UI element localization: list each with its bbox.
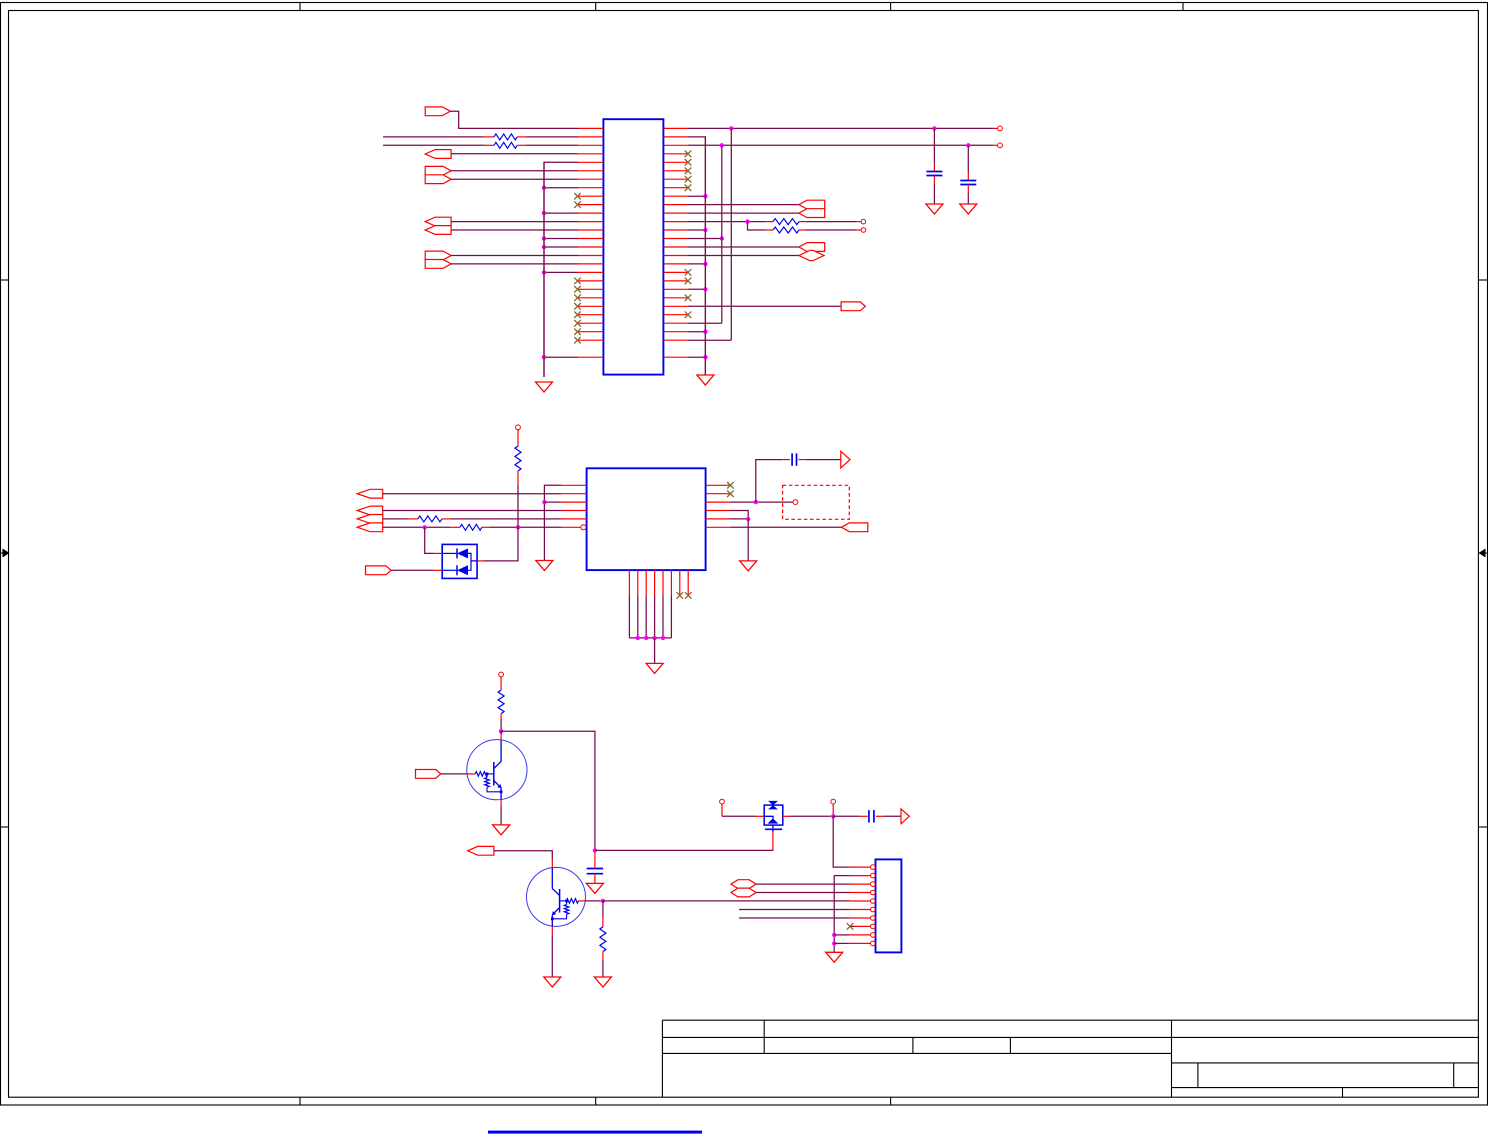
dashed option box xyxy=(783,485,850,519)
wire J1 pin9 xyxy=(834,934,850,936)
resistor R7 (pull-up) xyxy=(517,430,519,446)
off-page circle pull-up xyxy=(516,425,521,430)
resistor R1 xyxy=(484,136,494,138)
connector P4a xyxy=(425,217,451,226)
off-page circle R4 xyxy=(861,228,866,233)
diode pack D1 xyxy=(442,544,477,578)
wire U1 pin17 to gnd trunk xyxy=(688,263,705,265)
capacitor C3 xyxy=(782,459,790,461)
junction pin3/C2 xyxy=(966,143,970,147)
wire R5 to U2 pin5 xyxy=(450,518,561,520)
wire junction row to D2 xyxy=(595,849,774,851)
connector P10b xyxy=(357,515,383,524)
wire Q1 emitter to gnd xyxy=(500,807,502,825)
wire P5a to U1 pin16 xyxy=(451,255,578,257)
wire bus to ground xyxy=(654,638,656,664)
wire P9 to U2 pin2 xyxy=(383,493,561,495)
junction trunkC pin14 xyxy=(720,236,724,240)
wire U1 pin25 to gnd trunk xyxy=(688,331,705,333)
junction gnd trunk pin25 xyxy=(703,330,707,334)
title block xyxy=(662,1019,1478,1021)
wire P11 to D1 in2 xyxy=(391,569,434,571)
wire D2 out down to J1 xyxy=(833,816,850,867)
wire branch down xyxy=(748,222,766,230)
wire C3 to arrow xyxy=(806,459,840,461)
wire U2 pin1 to gnd trunk xyxy=(544,485,561,560)
connector P5b xyxy=(425,260,451,269)
wire stub J1 pin7 xyxy=(739,917,850,919)
resistor R8 (Q1 pull-up) xyxy=(500,677,502,690)
wire P15a to J1 pin3 xyxy=(756,883,850,885)
capacitor C2 xyxy=(967,145,969,172)
wire P2 to U1 pin4 xyxy=(451,153,578,155)
connector P12 xyxy=(841,523,867,532)
junction U2 pin3 gnd xyxy=(542,500,546,504)
off-page circle in dashed box xyxy=(793,500,798,505)
connector P5a xyxy=(425,251,451,260)
ground U2 bottom xyxy=(646,663,663,673)
off-page circle top rail 1 xyxy=(998,126,1003,131)
U2 left pin6 (inverted) xyxy=(561,526,581,528)
frame right zone ticks xyxy=(1478,279,1487,281)
wire U1 pin1 top rail xyxy=(688,127,994,129)
junction left trunk pin27 xyxy=(542,355,546,359)
wire U1 pin13 to gnd trunk xyxy=(688,229,705,231)
wire U1 pin11 to P6b xyxy=(688,212,800,214)
wire P4b to U1 pin13 xyxy=(451,229,578,231)
wire trunkB xyxy=(730,128,732,340)
junction pin1/C1 xyxy=(932,126,936,130)
wire U1 pin16 to P7b xyxy=(688,255,800,257)
ground C1 xyxy=(926,204,943,214)
wire U1 pin15 to P7a xyxy=(688,246,800,248)
no-connect X J1 pin8 xyxy=(850,925,854,927)
connector P7b xyxy=(799,250,824,260)
ground U1 left xyxy=(536,382,553,392)
wire net row2 to resistor xyxy=(383,136,484,138)
wire Q2 emitter to gnd xyxy=(551,934,553,977)
wire P14 to Q2 xyxy=(494,851,552,859)
wire trunk to U1 pin18 xyxy=(544,271,578,273)
junction pullup xyxy=(516,525,520,529)
wire P1 to U1 pin1 xyxy=(450,111,578,128)
footer blue underline xyxy=(488,1131,702,1134)
junctions bottom bus xyxy=(636,636,640,640)
wire to gnd U2 right xyxy=(747,519,749,561)
ground Q1 xyxy=(493,825,510,835)
wire P10a to U2 pin4 xyxy=(383,510,561,512)
no-connect X U2 right 1-2 xyxy=(727,482,734,489)
U2 left pins xyxy=(561,484,587,486)
wire U1 pin9 to gnd trunk xyxy=(688,195,705,197)
wire P3a to U1 pin6 xyxy=(451,170,578,172)
wire J1 pin10 xyxy=(834,942,850,944)
wire U1 pin27 to gnd trunk xyxy=(688,356,705,358)
off-page circle R3 xyxy=(861,219,866,224)
connector P15b xyxy=(731,888,756,897)
wire P5b to U1 pin17 xyxy=(451,263,578,265)
wire R4 to circle xyxy=(806,229,856,231)
transistor Q2 xyxy=(527,867,586,926)
IC U2 xyxy=(587,468,706,570)
U2 right pins xyxy=(706,484,731,486)
junction gnd trunk pin17 xyxy=(703,262,707,266)
wire U2 bottom bus xyxy=(629,637,671,639)
wire U2 pin6r to P12 xyxy=(730,526,841,528)
connector P3b xyxy=(425,175,451,184)
junction Q1 collector xyxy=(499,729,503,733)
junction diode branch xyxy=(423,525,427,529)
connector P10c xyxy=(357,523,383,532)
wire U1 pin12 to R3 xyxy=(688,221,766,223)
no-connect X U2 bottom 7-8 xyxy=(677,592,684,599)
resistor R4 xyxy=(766,229,773,231)
connector P9 xyxy=(357,489,383,498)
wire U1 pin14 to trunkC xyxy=(688,238,722,240)
ground U2 right xyxy=(740,561,757,571)
ground R9 xyxy=(594,977,611,987)
connector P4b xyxy=(425,226,451,235)
wire J1 pin2 to gnd trunk xyxy=(834,876,850,953)
wire trunkC xyxy=(721,145,723,323)
junction J1 pin9 xyxy=(832,933,836,937)
junction AC branch xyxy=(754,500,758,504)
open arrow out1 xyxy=(841,451,850,468)
resistor R6 xyxy=(450,526,460,528)
connector P14 xyxy=(468,846,494,855)
junction J1 pin10 xyxy=(832,941,836,945)
wire U2 pin3 stub xyxy=(544,501,561,503)
connector P15a xyxy=(731,880,756,889)
wire trunk to U1 pin11 xyxy=(544,212,578,214)
wire R2 to U1 pin3 xyxy=(526,144,578,146)
wire D2 in xyxy=(721,804,723,816)
ground U1 right xyxy=(697,375,714,385)
capacitor C1 xyxy=(933,128,935,163)
wire C5 to arrow xyxy=(884,815,901,817)
junction pin5r xyxy=(746,517,750,521)
ground Q2 xyxy=(544,977,561,987)
wire P4a to U1 pin12 xyxy=(451,221,578,223)
ground U2 left xyxy=(536,561,553,571)
wire P10c to R6 xyxy=(383,526,451,528)
frame right centre arrow xyxy=(1480,550,1488,557)
connector P1 (top input) xyxy=(425,107,450,116)
junction C4 top xyxy=(593,848,597,852)
wire R3 to circle xyxy=(806,221,856,223)
wire trunk to U1 pin14 xyxy=(544,238,578,240)
connector P10a xyxy=(357,506,383,515)
no-connect X U1 left pins 9-10 xyxy=(574,193,581,200)
wire U1 pin24 to trunkC end xyxy=(688,322,722,324)
connector P13 (Q1 base) xyxy=(416,770,441,779)
wire D2 out xyxy=(782,815,790,817)
off-page circle top rail 2 xyxy=(998,143,1003,148)
wire P3b to U1 pin7 xyxy=(451,178,578,180)
wire net row3 to resistor xyxy=(383,144,484,146)
resistor R3 xyxy=(766,221,773,223)
wire U2 pin3r to circle xyxy=(730,501,793,503)
junction D2 out xyxy=(831,814,835,818)
junction pin3/trunkC xyxy=(720,143,724,147)
junction R-pair branch xyxy=(745,219,749,223)
junction gnd trunk pin9 xyxy=(703,194,707,198)
junction Q2 base xyxy=(601,899,605,903)
wire R7 down to D1 out xyxy=(483,485,518,561)
wire P10b to R5 xyxy=(383,518,408,520)
wire U1 pin22 to P8 xyxy=(688,305,841,307)
ground C4 xyxy=(586,883,603,893)
wire U1 pin5 to trunk xyxy=(544,162,578,377)
wire left trunk (U1) xyxy=(543,162,545,377)
junction gnd trunk pin27 xyxy=(703,355,707,359)
wire U1 pin10 to P6a xyxy=(688,204,800,206)
connector P6b xyxy=(799,209,825,218)
wire R9 to gnd xyxy=(602,960,604,977)
J1 pins xyxy=(850,866,871,868)
U1 right pins xyxy=(663,127,688,129)
wire R6 to U2 pin6 xyxy=(490,526,561,528)
wire R1 to U1 pin2 xyxy=(526,136,578,138)
wire R8 to junction xyxy=(500,719,502,731)
wire U1 pin3 rail2 xyxy=(688,144,994,146)
junction left trunk pin8 xyxy=(542,186,546,190)
junction pin1/trunkB xyxy=(729,126,733,130)
junction left trunk pin18 xyxy=(542,270,546,274)
wire branch to D1 in1 xyxy=(425,527,434,553)
wire Q2 base net to J1 pin5 xyxy=(603,900,850,902)
wire P13 to Q1 base xyxy=(441,773,468,775)
capacitor C5 xyxy=(833,815,859,817)
diode pack D2 xyxy=(764,805,783,825)
IC U1 xyxy=(603,119,663,374)
wire U2 pin4r down xyxy=(730,511,748,519)
wire U2 pin5r xyxy=(730,518,748,520)
wire circle to junction xyxy=(832,804,834,816)
wire D2 bottom xyxy=(772,832,774,850)
junction gnd trunk pin13 xyxy=(703,228,707,232)
no-connect X U1 left pins 19-26 xyxy=(574,278,581,285)
U2 bottom pins xyxy=(628,570,630,595)
wire trunk to U1 pin15 xyxy=(544,246,578,248)
capacitor C4 xyxy=(594,850,596,860)
junction left trunk pin15 xyxy=(542,245,546,249)
no-connect X U1 right pins 18,19,21,23 xyxy=(685,269,692,276)
connector P3a xyxy=(425,166,451,175)
wire Q2 base to junction xyxy=(586,900,603,902)
wire U1 pin26 to trunkB end xyxy=(688,339,731,341)
resistor R2 xyxy=(484,144,494,146)
wire junction to right drop xyxy=(501,731,595,850)
wire P15b to J1 pin4 xyxy=(756,892,850,894)
wire gnd trunk (right) xyxy=(704,137,706,375)
resistor R9 (Q2 base-gnd) xyxy=(602,901,604,918)
wire U2 bottom bus verts xyxy=(628,595,630,638)
off-page circle Q1 pull-up xyxy=(499,672,504,677)
junction left trunk pin14 xyxy=(542,236,546,240)
resistor R5 xyxy=(408,518,418,520)
wire trunk to U1 pin8 xyxy=(544,187,578,189)
frame top zone ticks xyxy=(299,3,301,11)
connector P11 xyxy=(366,566,392,575)
wire U1 pin2 to gnd trunk xyxy=(688,137,705,375)
wire stub J1 pin6 xyxy=(739,909,850,911)
connector P8 xyxy=(841,302,865,311)
frame left centre arrow xyxy=(1,550,9,557)
open arrow out2 xyxy=(901,809,909,824)
off-page circle D2 out xyxy=(831,799,836,804)
frame bottom zone ticks xyxy=(299,1097,301,1105)
no-connect X U1 right pins 4-8 xyxy=(685,151,692,158)
junction left trunk pin11 xyxy=(542,211,546,215)
junction gnd trunk pin20 xyxy=(703,287,707,291)
frame left zone ticks xyxy=(1,279,9,281)
off-page circle D2 in xyxy=(720,799,725,804)
connector P7a xyxy=(799,243,825,252)
connector P6a xyxy=(799,200,825,209)
ground C2 xyxy=(960,204,977,214)
connector P2 (left out) xyxy=(425,150,451,159)
ground J1 xyxy=(826,952,843,962)
transistor Q1 xyxy=(467,740,527,800)
wire trunk to U1 pin27 xyxy=(544,356,578,358)
connector J1 xyxy=(876,859,902,952)
U1 left pins xyxy=(578,127,603,129)
wire U1 pin20 to gnd trunk xyxy=(688,288,705,290)
wire AC up xyxy=(756,460,782,503)
